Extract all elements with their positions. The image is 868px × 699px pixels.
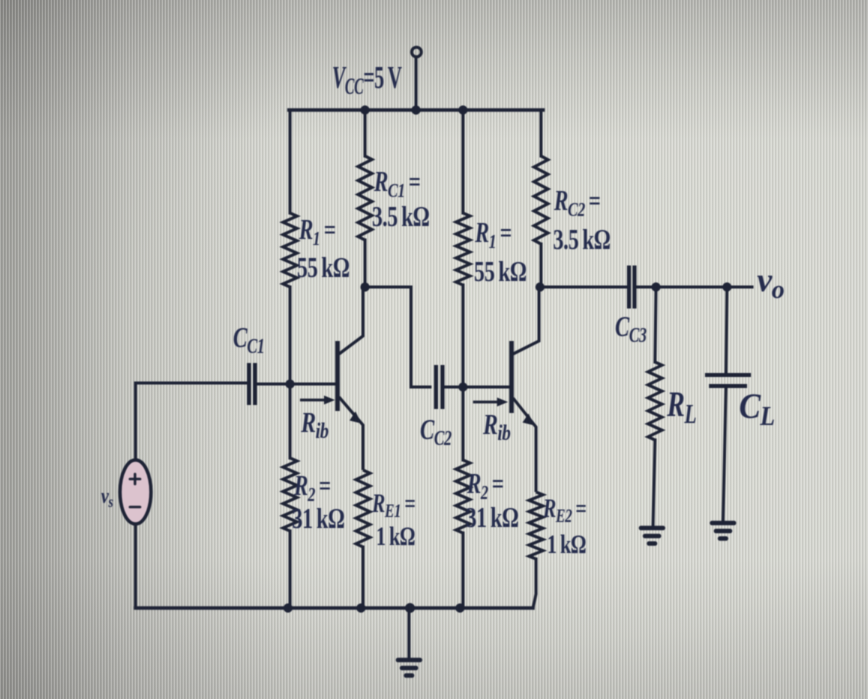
svg-text:CC3​: CC3​ [615,310,647,347]
svg-text:R1​ =: R1​ = [298,215,336,249]
arrow Rib2 [473,401,500,404]
svg-text:vo​: vo​ [757,262,785,304]
svg-text:R2​ =: R2​ = [293,471,331,505]
node base1 [285,379,294,388]
wire source to CC1 [136,383,247,460]
resistor RC1 [358,156,372,240]
resistor RE2 [529,492,543,559]
wire CL top lead [726,287,727,373]
junction rail-R1b [458,105,467,114]
wire RE2 bottom lead [533,559,536,608]
wire collector1 jog [365,287,430,387]
wire R2a leads [289,384,292,458]
svg-text:CC1​: CC1​ [233,321,264,358]
node collector1 [360,282,369,291]
svg-text:RC1​ =: RC1​ = [373,167,420,201]
resistor RL [648,362,662,440]
arrow Rib1 [300,399,327,402]
wire R2a bottom lead [289,531,292,608]
svg-text:CL​: CL​ [739,386,775,431]
resistor R2 stage1 [283,458,297,531]
wire bottom ground rail [136,606,534,609]
resistor R1 stage2 [456,213,470,285]
svg-text:3.5 kΩ: 3.5 kΩ [372,202,429,232]
source vs [120,460,151,524]
svg-text:3.5 kΩ: 3.5 kΩ [553,225,610,255]
transistor Q2 [512,287,540,492]
svg-text:Rib​: Rib​ [482,410,511,446]
svg-text:vs​: vs​ [101,484,114,511]
svg-text:R1​ =: R1​ = [474,218,512,252]
svg-text:1 kΩ: 1 kΩ [376,521,415,550]
wire RC2 bottom lead [540,244,543,287]
svg-text:1 kΩ: 1 kΩ [547,529,586,558]
junction rail-R2a [283,603,292,612]
wire RL top lead [655,287,656,362]
wire CC1 to base node [255,383,337,386]
wire RE1 bottom lead [362,547,365,608]
capacitor CL [705,375,751,386]
wire collector2 to CC3 [540,286,626,289]
wire RL bottom lead [653,440,655,527]
wire CC3 to vo [636,286,752,289]
wire R2b leads [462,387,465,460]
node base2 [458,382,467,391]
svg-text:55 kΩ: 55 kΩ [297,253,350,283]
wire RC1 bottom lead [364,240,367,287]
svg-text:Rib​: Rib​ [300,408,329,444]
wire RC2 top lead [540,110,543,156]
wire R1b top lead [462,110,465,213]
wire source to ground rail [134,524,137,608]
capacitor CC3 [629,266,635,309]
wire CL bottom lead [723,388,726,522]
resistor RC2 [534,156,548,244]
power terminal Vcc [412,47,422,57]
svg-text:VCC​=5 V: VCC​=5 V [332,59,402,100]
wire CC2 to base2 [443,386,511,389]
ground main [398,660,420,676]
transistor Q1 [338,287,364,470]
junction rail-gnd [405,603,415,613]
svg-text:RE1​ =: RE1​ = [371,488,415,521]
capacitor CC1 [249,363,255,405]
wire R1a top lead [289,110,292,213]
node collector2 [535,282,544,291]
junction rail-RE1 [356,603,365,612]
svg-text:RL​: RL​ [666,384,696,430]
resistor R2 stage2 [456,460,470,533]
wire ground stem [408,608,411,659]
capacitor CC2 [436,365,443,409]
wire base node to Q1 [290,383,337,386]
svg-text:RE2​ =: RE2​ = [542,493,586,526]
svg-text:CC2​: CC2​ [420,413,452,450]
resistor R1 stage1 [283,213,297,287]
wire Vcc stem [415,57,418,110]
svg-text:31 kΩ: 31 kΩ [466,503,519,533]
ground CL [712,523,734,539]
svg-text:R2​ =: R2​ = [466,469,504,503]
wire RC1 top lead [364,110,367,156]
wire R2b bottom lead [462,533,465,608]
resistor RE1 [356,470,370,547]
wire R1b bottom lead [462,285,465,387]
svg-text:RC2​ =: RC2​ = [553,186,600,220]
ground RL [641,528,663,544]
svg-text:55 kΩ: 55 kΩ [474,257,527,287]
junction out-RL [651,282,660,291]
wire top supply rail [289,108,543,112]
junction out-CL [722,282,731,291]
junction rail-Vcc [411,105,420,114]
svg-text:31 kΩ: 31 kΩ [292,504,345,534]
junction rail-RC1 [360,105,369,114]
junction rail-R2b [455,603,464,612]
wire R1a bottom lead [289,287,292,384]
